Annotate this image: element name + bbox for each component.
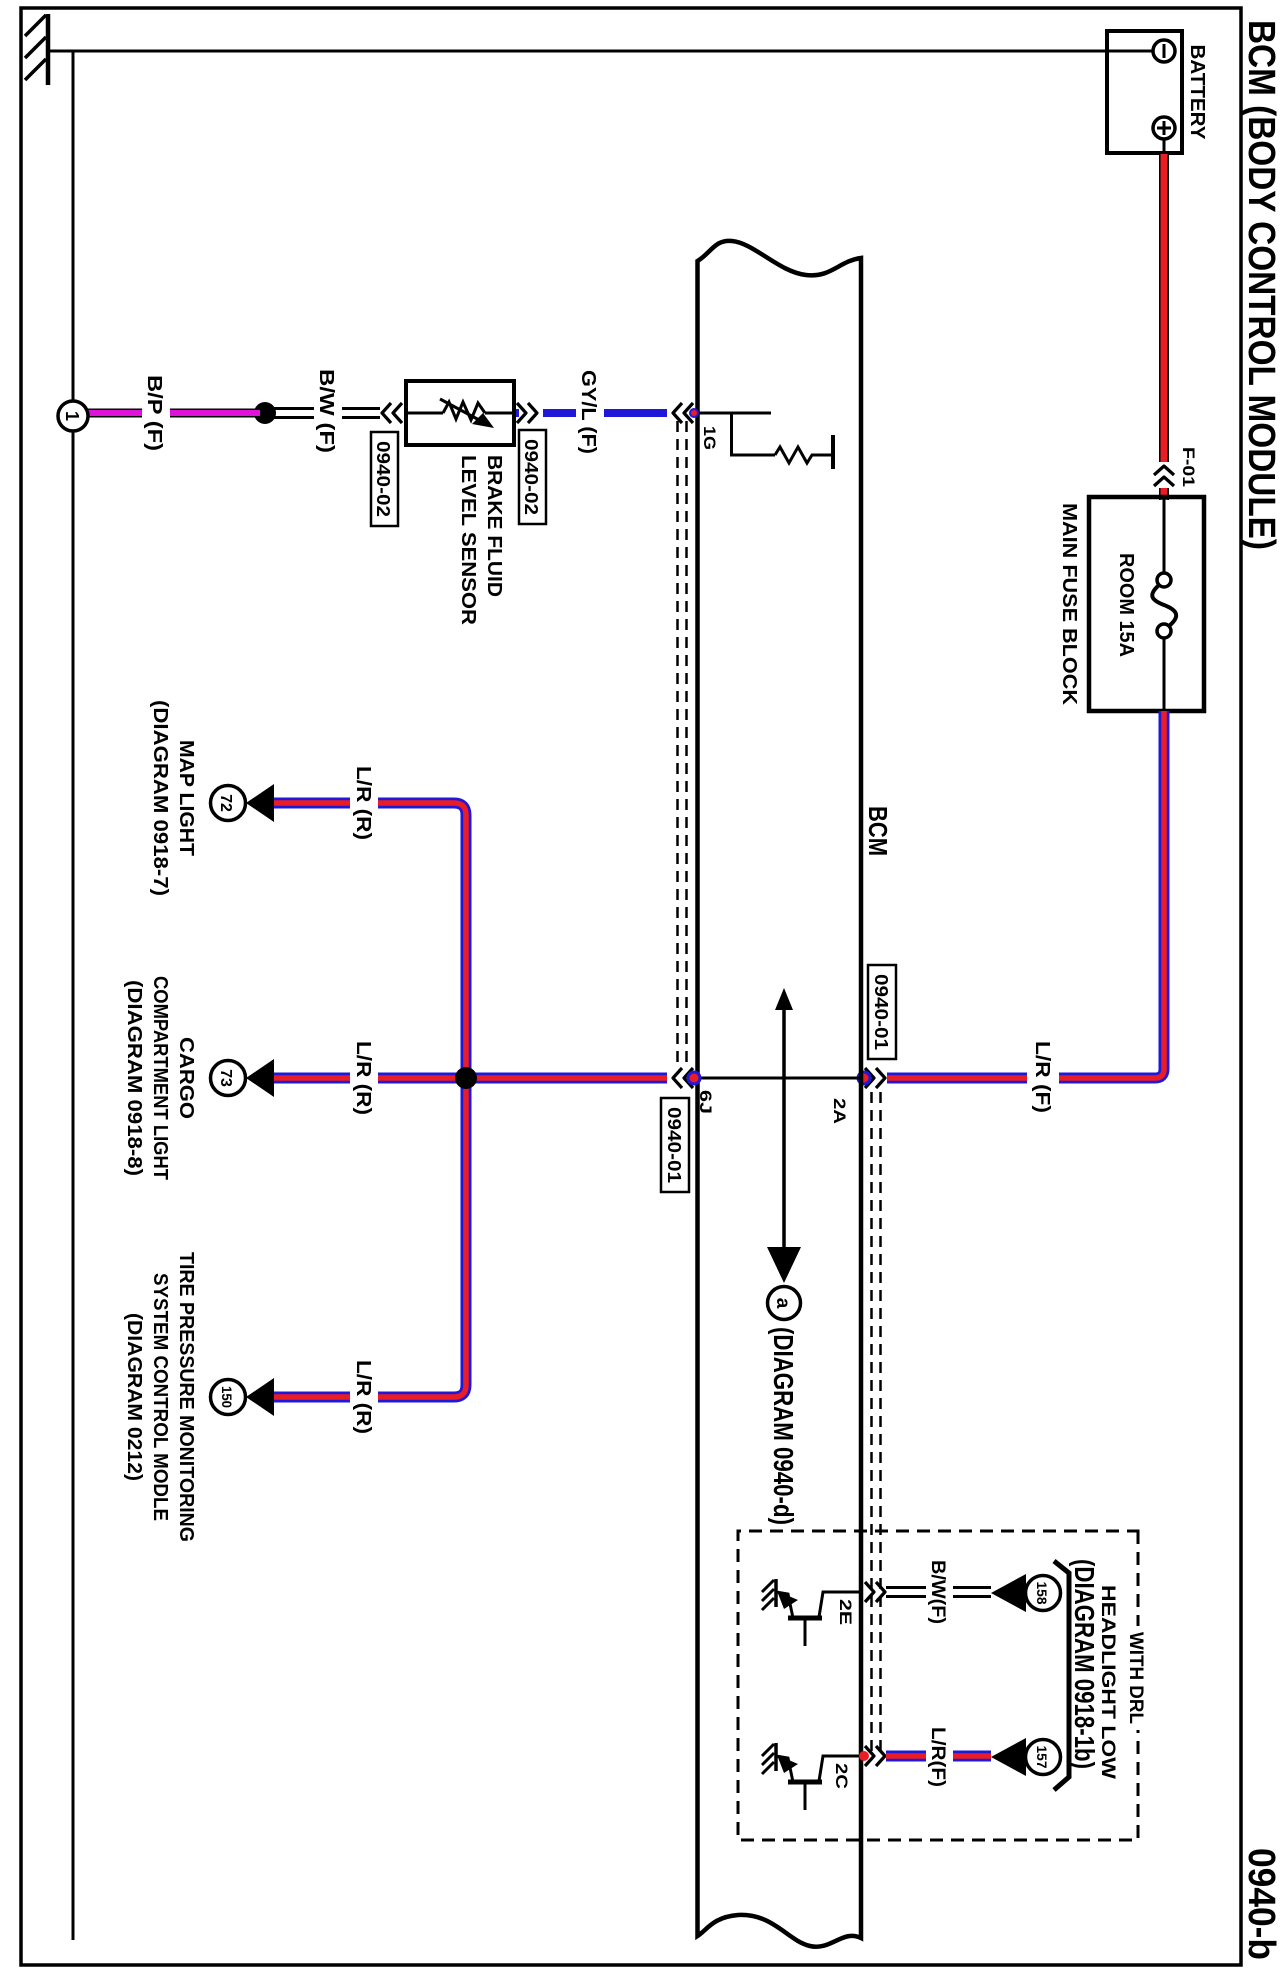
svg-text:B/W(F): B/W(F)	[927, 1560, 948, 1624]
svg-text:L/R (R): L/R (R)	[352, 1041, 374, 1115]
internal double-headed arrow to diagram 0940-d	[782, 1004, 786, 1252]
svg-text:158: 158	[1034, 1582, 1050, 1605]
transistor Q1 base lead	[804, 1618, 807, 1646]
svg-text:MAIN FUSE BLOCK: MAIN FUSE BLOCK	[1058, 503, 1080, 706]
fuse ROOM 15A wire lead left	[1163, 497, 1166, 574]
svg-text:COMPARTMENT LIGHT: COMPARTMENT LIGHT	[149, 976, 171, 1180]
internal ground bar terminal	[831, 435, 835, 469]
transistor Q2 chassis ground	[774, 1743, 778, 1771]
wire L/R (R) pin 6J down to junction and terminal 73	[273, 1073, 667, 1084]
internal wire pin 2A to pin 6J	[697, 1077, 861, 1080]
svg-text:L/R (R): L/R (R)	[352, 1360, 374, 1434]
label B/W(F)	[926, 1560, 953, 1626]
svg-text:B/P (F): B/P (F)	[143, 375, 165, 451]
main fuse block box	[1089, 497, 1204, 711]
wire B/P (F) splice to ground point (magenta)	[87, 409, 260, 418]
svg-text:2A: 2A	[830, 1098, 849, 1124]
node terminal 72	[211, 786, 246, 821]
label L/R (R) at 150	[350, 1360, 378, 1434]
svg-text:F-01: F-01	[1179, 447, 1198, 487]
sensor internal lead top	[485, 412, 514, 415]
sensor variable arrow	[440, 399, 481, 421]
svg-text:MAP LIGHT: MAP LIGHT	[175, 740, 197, 856]
terminal arrow 73	[246, 1059, 274, 1097]
svg-text:72: 72	[217, 794, 234, 812]
svg-text:157: 157	[1034, 1746, 1050, 1769]
svg-text:73: 73	[217, 1069, 234, 1087]
label WITH DRL	[1126, 1626, 1150, 1730]
connector 2E chevrons	[865, 1582, 885, 1602]
terminal arrow 158	[991, 1574, 1026, 1612]
brake fluid level sensor box	[406, 381, 514, 445]
node circle a	[768, 1287, 801, 1320]
label box 0940-02 below sensor	[371, 432, 398, 526]
connector 1G chevrons	[673, 403, 693, 423]
label L/R (R) at 72	[350, 767, 378, 841]
ground bus wire along bottom	[72, 51, 75, 1940]
svg-text:BATTERY: BATTERY	[1186, 45, 1208, 141]
transistor Q2 collector lead to pin 2C	[819, 1756, 861, 1781]
node terminal 73	[211, 1061, 246, 1096]
resistor R internal zigzag	[775, 447, 831, 463]
connector 6J chevrons	[673, 1068, 693, 1088]
sensor variable resistor zigzag	[443, 402, 485, 420]
svg-text:B/W (F): B/W (F)	[315, 369, 337, 453]
svg-text:150: 150	[219, 1386, 235, 1408]
bracket over terminals	[1054, 1561, 1069, 1790]
svg-text:1G: 1G	[700, 426, 719, 450]
svg-text:(DIAGRAM 0918-1b): (DIAGRAM 0918-1b)	[1069, 1559, 1100, 1769]
battery B1 box	[1107, 31, 1182, 153]
label GY/L (F)	[576, 371, 604, 455]
wire L/R (F) fuse to BCM pin 2A (blue outline red core)	[887, 711, 1164, 1078]
svg-text:0940-02: 0940-02	[373, 441, 393, 517]
svg-text:2E: 2E	[836, 1599, 855, 1625]
wire B/W(F) double line pin 2E to terminal 158	[886, 1588, 991, 1597]
node pin 2C red cap	[859, 1751, 869, 1761]
label box 0940-02 right of sensor	[519, 430, 546, 524]
svg-text:0940-02: 0940-02	[521, 439, 541, 515]
svg-text:BRAKE FLUID: BRAKE FLUID	[483, 455, 505, 597]
node terminal 157	[1026, 1740, 1061, 1775]
node ground point 1	[58, 401, 88, 431]
svg-text:LEVEL SENSOR: LEVEL SENSOR	[457, 455, 479, 626]
transistor Q1 emitter lead	[776, 1592, 793, 1618]
terminal arrow 72	[246, 784, 274, 822]
svg-text:BCM: BCM	[863, 806, 893, 856]
terminal arrow 150	[246, 1378, 274, 1416]
harness dashed pair 2A to 2C	[872, 1092, 881, 1754]
label B/P (F)	[142, 375, 170, 451]
svg-text:L/R (R): L/R (R)	[352, 766, 374, 840]
connector chevrons above sensor	[517, 403, 537, 423]
wire battery negative to ground (black)	[48, 50, 1153, 53]
svg-text:(DIAGRAM 0918-8): (DIAGRAM 0918-8)	[123, 980, 145, 1176]
battery negative terminal	[1153, 40, 1175, 62]
connector F-01 chevrons	[1154, 466, 1174, 486]
label L/R (R) at 73	[350, 1041, 378, 1115]
svg-text:1: 1	[62, 411, 82, 421]
transistor Q2 emitter arrow	[777, 1755, 798, 1773]
transistor Q1 base bar	[788, 1616, 822, 1621]
node terminal 150	[211, 1380, 246, 1415]
transistor Q2 base bar	[788, 1780, 822, 1785]
BCM module box with wavy ends	[698, 241, 862, 1947]
node pin 1G red cap	[689, 408, 699, 418]
transistor Q1 collector lead to pin 2E	[819, 1592, 861, 1617]
splice junction dot	[254, 402, 276, 424]
svg-text:ROOM 15A: ROOM 15A	[1115, 553, 1137, 657]
svg-text:SYSTEM CONTROL MODLE: SYSTEM CONTROL MODLE	[149, 1273, 171, 1521]
sensor internal lead bottom	[406, 412, 443, 415]
svg-text:0940-01: 0940-01	[871, 974, 891, 1050]
wire L/R (R) branch bus to terminals 72 and 150	[273, 803, 466, 1397]
internal resistor branch at 1G	[732, 413, 776, 455]
label L/R(F)	[926, 1726, 953, 1788]
wire L/R(F) pin 2C to terminal 157	[886, 1751, 991, 1762]
svg-text:(DIAGRAM 0940-d): (DIAGRAM 0940-d)	[768, 1327, 799, 1525]
svg-text:TIRE PRESSURE MONITORING: TIRE PRESSURE MONITORING	[175, 1252, 197, 1542]
wire B/R (E) battery to fuse block (red)	[1159, 154, 1169, 462]
wire GY/L (F) BCM to sensor (blue)	[543, 409, 667, 417]
chassis ground symbol	[46, 14, 51, 85]
svg-text:WITH DRL: WITH DRL	[1125, 1632, 1146, 1724]
transistor Q1 chassis ground	[774, 1579, 778, 1607]
svg-text:0940-01: 0940-01	[664, 1107, 684, 1183]
svg-text:(DIAGRAM 0918-7): (DIAGRAM 0918-7)	[149, 700, 171, 896]
transistor Q2 emitter lead	[776, 1756, 793, 1782]
label box 0940-01 at 2A	[868, 965, 896, 1059]
svg-text:a: a	[772, 1298, 793, 1309]
fuse ROOM 15A wire lead right	[1163, 637, 1166, 711]
headlight dashed group box	[738, 1531, 1138, 1840]
node terminal 158	[1026, 1576, 1061, 1611]
terminal arrow 157	[991, 1738, 1026, 1776]
transistor Q1 emitter arrow	[777, 1591, 798, 1609]
connector 2A chevrons	[865, 1068, 885, 1088]
battery positive terminal	[1153, 117, 1175, 139]
svg-text:BCM (BODY CONTROL MODULE): BCM (BODY CONTROL MODULE)	[1240, 20, 1281, 550]
svg-text:L/R (F): L/R (F)	[1031, 1041, 1053, 1113]
pin 1G internal stub	[697, 412, 771, 415]
transistor Q2 base lead	[804, 1782, 807, 1810]
battery positive stub	[1163, 139, 1166, 155]
svg-text:6J: 6J	[696, 1090, 715, 1114]
label B/W (F)	[314, 370, 342, 454]
label box 0940-01 at 6J	[661, 1098, 689, 1192]
svg-text:GY/L (F): GY/L (F)	[577, 370, 599, 454]
svg-text:L/R(F): L/R(F)	[927, 1727, 948, 1787]
svg-text:2C: 2C	[832, 1763, 851, 1789]
junction splice dot	[455, 1067, 477, 1089]
label L/R (F)	[1027, 1040, 1059, 1118]
connector 2C chevrons	[865, 1746, 885, 1766]
svg-text:0940-b: 0940-b	[1240, 1848, 1281, 1960]
wire B/W (F) double line sensor to splice	[271, 409, 380, 418]
harness dashed pair 6J to 1G	[678, 421, 687, 1066]
wire stub into sensor box (blue)	[511, 409, 519, 417]
node pin 2A red cap	[857, 1071, 872, 1086]
svg-text:(DIAGRAM 0212): (DIAGRAM 0212)	[123, 1313, 145, 1481]
svg-text:CARGO: CARGO	[175, 1037, 197, 1119]
wire stub into fuse block (red)	[1159, 488, 1169, 500]
connector chevrons below sensor	[382, 403, 402, 423]
node pin 6J red cap	[687, 1071, 702, 1086]
fuse element S-curve	[1157, 573, 1171, 587]
